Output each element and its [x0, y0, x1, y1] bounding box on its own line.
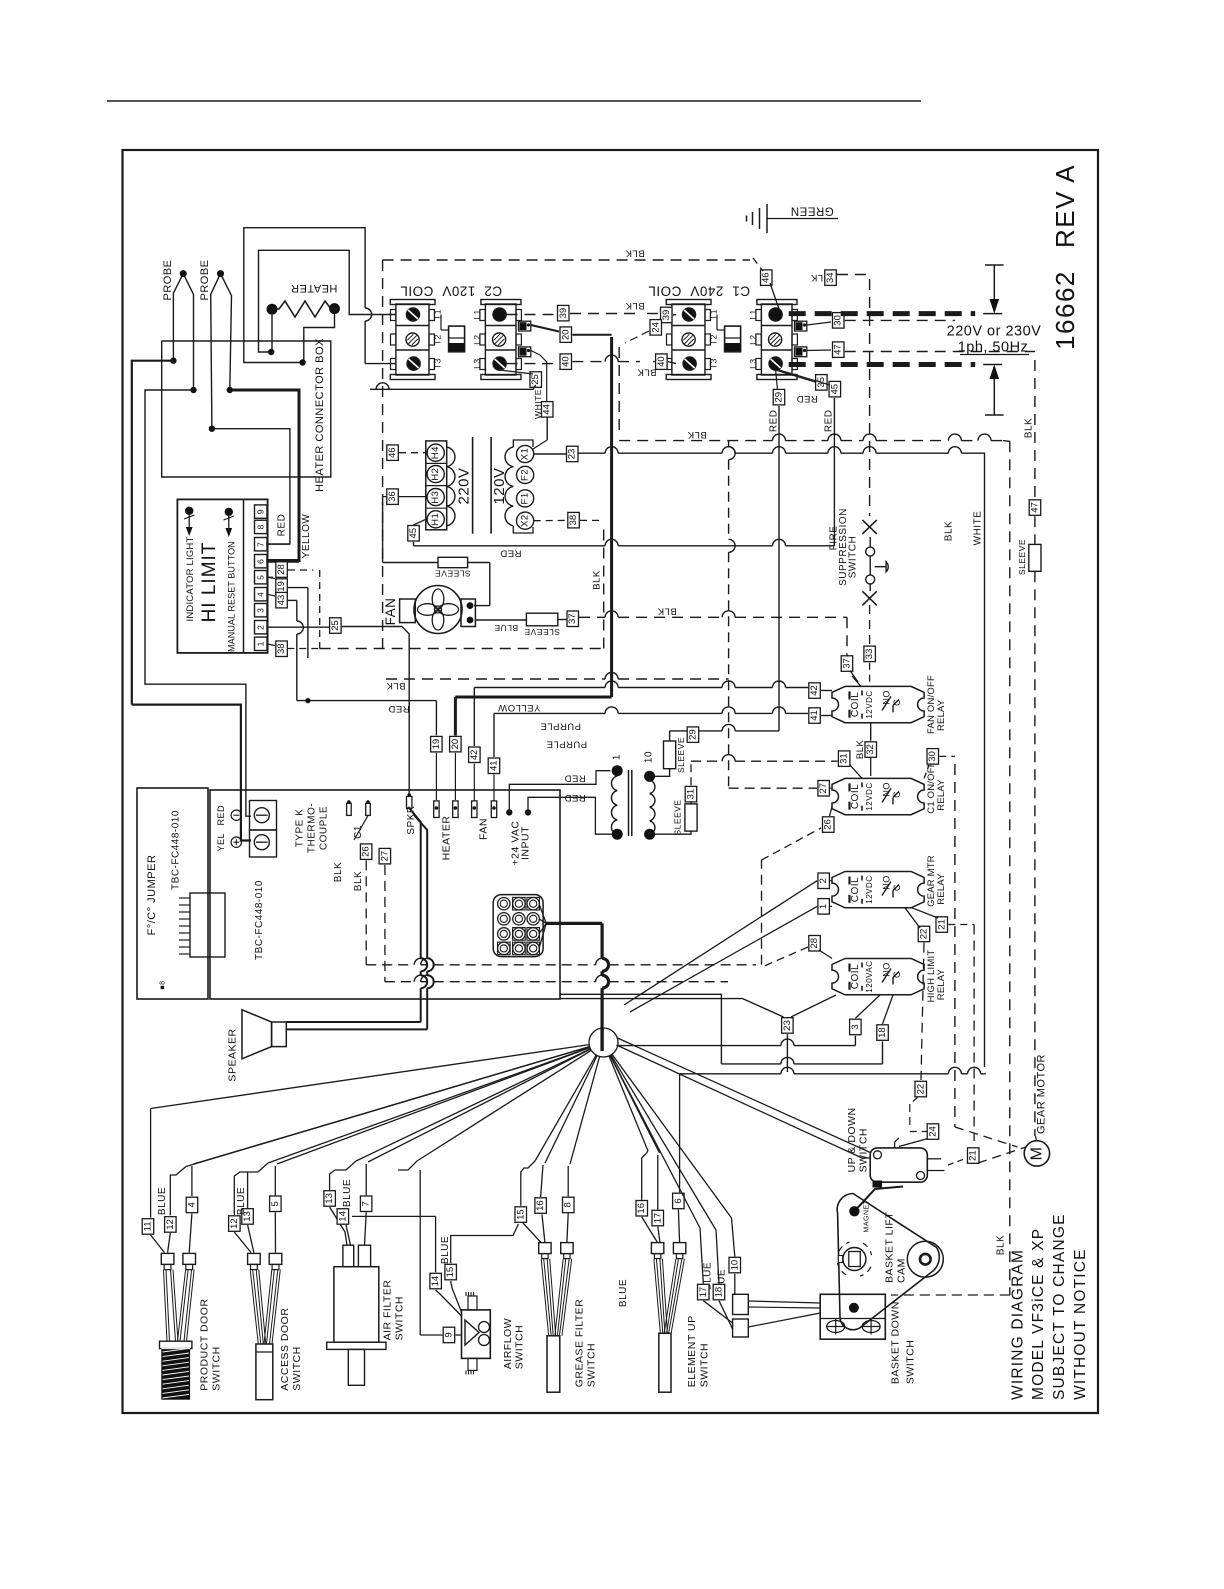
svg-text:PROBE: PROBE: [162, 259, 174, 300]
svg-text:T1: T1: [709, 309, 719, 320]
svg-text:20: 20: [560, 329, 571, 340]
svg-text:BLK: BLK: [996, 1235, 1007, 1255]
svg-text:RED: RED: [216, 805, 226, 826]
svg-text:SWITCH: SWITCH: [586, 1343, 598, 1387]
svg-text:RED: RED: [564, 773, 586, 784]
svg-text:12: 12: [165, 1219, 176, 1230]
svg-text:33: 33: [864, 649, 875, 660]
svg-text:31: 31: [686, 789, 697, 800]
svg-text:REV A: REV A: [1050, 164, 1080, 248]
svg-text:COUPLE: COUPLE: [319, 806, 330, 850]
svg-text:8: 8: [563, 1202, 574, 1207]
svg-text:30: 30: [927, 751, 938, 762]
svg-text:18: 18: [877, 1027, 888, 1038]
svg-text:16: 16: [636, 1203, 647, 1214]
svg-text:1: 1: [256, 641, 266, 646]
svg-text:22: 22: [915, 1084, 926, 1095]
svg-text:GREEN: GREEN: [790, 204, 833, 216]
svg-text:5: 5: [256, 575, 266, 580]
svg-text:C1 240V COIL: C1 240V COIL: [648, 284, 750, 299]
svg-text:3: 3: [256, 608, 266, 613]
svg-text:AIR FILTER: AIR FILTER: [382, 1280, 394, 1341]
svg-text:X2: X2: [520, 514, 531, 527]
svg-text:WHITE: WHITE: [973, 511, 984, 546]
svg-text:COIL: COIL: [850, 784, 861, 809]
svg-text:12: 12: [229, 1218, 240, 1229]
svg-text:BLK: BLK: [687, 429, 707, 440]
svg-text:22: 22: [919, 929, 930, 940]
svg-text:RED: RED: [388, 703, 410, 714]
svg-text:C2 120V COIL: C2 120V COIL: [400, 284, 502, 299]
svg-text:24: 24: [928, 1126, 939, 1137]
svg-text:4: 4: [186, 1202, 197, 1207]
svg-text:46: 46: [761, 272, 772, 283]
svg-text:BLK: BLK: [625, 300, 645, 311]
svg-text:BLUE: BLUE: [494, 623, 518, 633]
svg-text:T1: T1: [433, 309, 443, 320]
svg-text:29: 29: [688, 729, 699, 740]
svg-text:SWITCH: SWITCH: [291, 1346, 303, 1390]
svg-text:L2: L2: [472, 334, 482, 344]
svg-text:M: M: [1028, 1146, 1045, 1160]
svg-text:29: 29: [774, 392, 785, 403]
svg-text:47: 47: [1029, 502, 1040, 513]
svg-text:WIRING DIAGRAM: WIRING DIAGRAM: [1010, 1249, 1027, 1400]
svg-text:26: 26: [361, 846, 372, 857]
svg-text:41: 41: [809, 710, 820, 721]
svg-text:BLK: BLK: [353, 871, 364, 891]
svg-text:BLK: BLK: [657, 606, 677, 617]
svg-text:45: 45: [408, 528, 419, 539]
svg-text:L1: L1: [472, 309, 482, 319]
svg-text:9: 9: [444, 1332, 455, 1337]
svg-text:BLK: BLK: [625, 248, 645, 259]
svg-text:BASKET LIFT: BASKET LIFT: [884, 1212, 896, 1283]
svg-text:F°/C° JUMPER: F°/C° JUMPER: [146, 855, 158, 936]
svg-text:SPEAKER: SPEAKER: [227, 1028, 239, 1081]
svg-text:T2: T2: [433, 334, 443, 345]
svg-text:H4: H4: [430, 446, 441, 459]
svg-text:42: 42: [469, 750, 480, 761]
svg-text:5: 5: [270, 1201, 281, 1206]
svg-text:31: 31: [839, 753, 850, 764]
svg-text:SWITCH: SWITCH: [699, 1343, 711, 1387]
svg-text:HEATER: HEATER: [441, 816, 453, 861]
svg-text:ACCESS DOOR: ACCESS DOOR: [279, 1308, 291, 1391]
svg-text:30: 30: [833, 315, 844, 326]
svg-text:28: 28: [809, 938, 820, 949]
svg-text:3: 3: [850, 1024, 861, 1029]
svg-text:PURPLE: PURPLE: [540, 720, 581, 731]
svg-text:SWITCH: SWITCH: [211, 1346, 223, 1390]
svg-text:WHITE: WHITE: [533, 389, 543, 419]
svg-text:MANUAL RESET BUTTON: MANUAL RESET BUTTON: [226, 541, 236, 652]
svg-text:10: 10: [729, 1260, 740, 1271]
svg-text:16: 16: [535, 1200, 546, 1211]
svg-text:ELEMENT UP: ELEMENT UP: [686, 1315, 698, 1387]
svg-text:14: 14: [337, 1211, 348, 1222]
svg-text:RELAY: RELAY: [936, 779, 947, 811]
svg-text:220V or 230V: 220V or 230V: [947, 324, 1042, 340]
svg-text:SWITCH: SWITCH: [394, 1296, 406, 1340]
svg-text:34: 34: [825, 272, 836, 283]
svg-text:25: 25: [330, 620, 341, 631]
svg-text:SWITCH: SWITCH: [514, 1325, 526, 1369]
svg-text:20: 20: [450, 739, 461, 750]
svg-text:RELAY: RELAY: [936, 699, 947, 731]
svg-text:PURPLE: PURPLE: [546, 739, 587, 750]
svg-text:SLEEVE: SLEEVE: [435, 569, 471, 579]
svg-text:RED: RED: [500, 547, 522, 558]
svg-text:SLEEVE: SLEEVE: [673, 799, 683, 835]
svg-text:BLK: BLK: [592, 570, 603, 590]
svg-text:SWITCH: SWITCH: [848, 536, 859, 578]
svg-text:220V: 220V: [456, 467, 473, 504]
svg-text:BLK: BLK: [333, 862, 344, 882]
svg-text:YEL: YEL: [216, 833, 226, 852]
svg-text:41: 41: [489, 760, 500, 771]
svg-text:SLEEVE: SLEEVE: [524, 627, 560, 637]
svg-text:YELLOW: YELLOW: [498, 702, 541, 713]
svg-text:BLK: BLK: [386, 680, 406, 691]
svg-text:1: 1: [818, 904, 829, 909]
svg-text:32: 32: [865, 744, 876, 755]
svg-text:RELAY: RELAY: [936, 968, 947, 1000]
svg-text:BLUE: BLUE: [618, 1279, 629, 1307]
svg-text:HEATER CONNECTOR BOX: HEATER CONNECTOR BOX: [314, 338, 326, 492]
svg-text:17: 17: [652, 1213, 663, 1224]
svg-text:SLEEVE: SLEEVE: [676, 737, 686, 773]
svg-text:RELAY: RELAY: [936, 873, 947, 905]
svg-text:BLK: BLK: [1024, 418, 1035, 438]
svg-text:1: 1: [612, 754, 623, 760]
svg-text:7: 7: [361, 1201, 372, 1206]
svg-text:COIL: COIL: [850, 877, 861, 902]
svg-text:PROBE: PROBE: [199, 259, 211, 300]
svg-text:RED: RED: [769, 409, 780, 432]
svg-text:2: 2: [256, 625, 266, 630]
svg-text:FAN: FAN: [383, 598, 398, 626]
svg-text:19: 19: [431, 739, 442, 750]
svg-text:6: 6: [673, 1198, 684, 1203]
svg-text:38: 38: [568, 515, 579, 526]
svg-text:BLK: BLK: [944, 521, 955, 541]
svg-text:RED: RED: [823, 409, 834, 432]
svg-text:RED: RED: [564, 792, 586, 803]
svg-text:L2: L2: [748, 334, 758, 344]
svg-text:F1: F1: [520, 492, 531, 504]
svg-text:T3: T3: [709, 358, 719, 369]
svg-text:HEATER: HEATER: [291, 282, 338, 294]
svg-text:21: 21: [936, 919, 947, 930]
svg-text:TBC-FC448-010: TBC-FC448-010: [171, 810, 182, 890]
svg-text:8: 8: [256, 524, 266, 529]
svg-text:4: 4: [256, 592, 266, 597]
svg-text:MODEL VF3iCE & XP: MODEL VF3iCE & XP: [1030, 1228, 1047, 1400]
svg-text:HI LIMIT: HI LIMIT: [199, 542, 220, 623]
svg-text:BLUE: BLUE: [440, 1236, 451, 1264]
svg-text:AIRFLOW: AIRFLOW: [502, 1318, 514, 1369]
svg-text:38: 38: [276, 643, 287, 654]
svg-text:SWITCH: SWITCH: [905, 1340, 917, 1384]
svg-text:13: 13: [324, 1193, 335, 1204]
svg-text:THERMO-: THERMO-: [307, 803, 318, 853]
svg-text:L3: L3: [472, 358, 482, 368]
svg-text:H1: H1: [430, 513, 441, 526]
svg-text:19: 19: [276, 581, 287, 592]
svg-text:25: 25: [530, 374, 541, 385]
svg-text:6: 6: [256, 559, 266, 564]
svg-text:12VDC: 12VDC: [865, 875, 874, 903]
svg-text:BLK: BLK: [637, 367, 657, 378]
svg-text:COIL: COIL: [850, 964, 861, 989]
svg-text:11: 11: [143, 1221, 154, 1231]
svg-text:43: 43: [276, 595, 287, 606]
svg-text:H2: H2: [430, 468, 441, 481]
svg-text:WITHOUT NOTICE: WITHOUT NOTICE: [1072, 1248, 1089, 1400]
svg-text:15: 15: [445, 1267, 456, 1278]
svg-text:16662: 16662: [1050, 270, 1080, 350]
svg-text:27: 27: [379, 851, 390, 862]
svg-text:37: 37: [567, 613, 578, 624]
svg-text:9: 9: [256, 509, 266, 514]
svg-text:24: 24: [650, 322, 661, 333]
svg-text:BLK: BLK: [855, 740, 866, 760]
svg-text:SLEEVE: SLEEVE: [1017, 539, 1027, 575]
svg-text:TBC-FC448-010: TBC-FC448-010: [254, 880, 265, 960]
svg-text:FAN: FAN: [478, 818, 490, 840]
svg-text:47: 47: [833, 344, 844, 355]
svg-text:F2: F2: [520, 469, 531, 481]
svg-text:T3: T3: [433, 358, 443, 369]
svg-text:UP & DOWN: UP & DOWN: [846, 1107, 858, 1172]
svg-text:120VAC: 120VAC: [865, 960, 874, 992]
svg-text:10: 10: [643, 751, 654, 763]
svg-text:INPUT: INPUT: [520, 826, 532, 860]
svg-text:PRODUCT DOOR: PRODUCT DOOR: [199, 1299, 211, 1391]
svg-text:42: 42: [809, 685, 820, 696]
svg-text:7: 7: [256, 542, 266, 547]
svg-text:40: 40: [656, 356, 667, 367]
svg-text:BLUE: BLUE: [157, 1187, 168, 1215]
svg-text:TYPE K: TYPE K: [295, 809, 306, 848]
svg-text:INDICATOR LIGHT: INDICATOR LIGHT: [185, 537, 196, 622]
svg-text:YELLOW: YELLOW: [301, 514, 312, 559]
svg-text:40: 40: [560, 356, 571, 367]
svg-text:27: 27: [818, 783, 829, 794]
svg-text:BASKET DOWN: BASKET DOWN: [890, 1301, 902, 1384]
svg-text:■8: ■8: [160, 980, 167, 989]
svg-text:39: 39: [661, 310, 672, 321]
svg-text:23: 23: [567, 449, 578, 460]
svg-text:SWITCH: SWITCH: [858, 1128, 870, 1172]
svg-text:12VDC: 12VDC: [865, 782, 874, 810]
svg-text:X1: X1: [520, 448, 531, 461]
svg-text:12VDC: 12VDC: [865, 690, 874, 718]
svg-text:BLUE: BLUE: [236, 1187, 247, 1215]
svg-text:1ph, 50Hz: 1ph, 50Hz: [958, 339, 1029, 355]
svg-text:COIL: COIL: [850, 692, 861, 717]
svg-text:45: 45: [829, 384, 840, 395]
svg-text:18: 18: [714, 1287, 725, 1298]
svg-text:SUBJECT TO CHANGE: SUBJECT TO CHANGE: [1051, 1213, 1068, 1400]
svg-text:L3: L3: [748, 358, 758, 368]
svg-text:RED: RED: [277, 514, 288, 537]
svg-text:15: 15: [515, 1209, 526, 1220]
svg-text:46: 46: [387, 447, 398, 458]
svg-text:2: 2: [818, 878, 829, 883]
svg-text:37: 37: [842, 658, 853, 669]
svg-text:39: 39: [558, 308, 569, 319]
svg-text:T2: T2: [709, 334, 719, 345]
svg-text:BLUE: BLUE: [342, 1179, 353, 1207]
svg-text:21: 21: [968, 1150, 979, 1161]
svg-text:H3: H3: [430, 491, 441, 504]
svg-text:23: 23: [782, 1020, 793, 1031]
svg-text:CAM: CAM: [896, 1258, 908, 1283]
svg-text:44: 44: [542, 404, 553, 415]
svg-text:14: 14: [430, 1276, 441, 1287]
svg-text:17: 17: [698, 1287, 709, 1298]
svg-text:36: 36: [387, 491, 398, 502]
svg-text:RED: RED: [796, 393, 818, 404]
svg-text:26: 26: [823, 819, 834, 830]
svg-text:28: 28: [276, 564, 287, 575]
svg-text:GREASE FILTER: GREASE FILTER: [574, 1299, 586, 1388]
svg-text:GEAR MOTOR: GEAR MOTOR: [1036, 1054, 1048, 1134]
svg-text:L1: L1: [748, 309, 758, 319]
